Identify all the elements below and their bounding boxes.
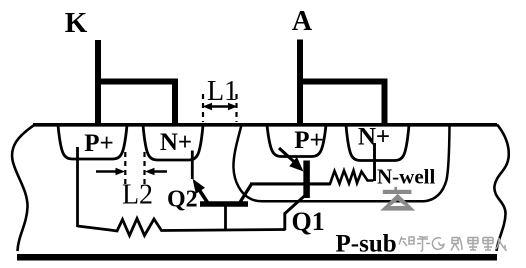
N+ anode well bbox=[346, 125, 409, 161]
P+ cathode well bbox=[58, 125, 127, 159]
left wavy break edge bbox=[12, 125, 35, 252]
transistor Q1 base bar bbox=[303, 161, 310, 199]
base wire Q2 collector to Q1 base bbox=[250, 182, 330, 185]
svg-text:N-well: N-well bbox=[377, 165, 435, 189]
right wavy break edge bbox=[494, 125, 508, 252]
N-well label bbox=[377, 165, 435, 189]
anode contact metal (A wire) bbox=[297, 40, 385, 126]
watermark diode logo gray bbox=[380, 187, 415, 211]
P+ anode well bbox=[267, 125, 326, 157]
transistor Q2 base lead bbox=[224, 206, 227, 230]
transistor Q2 emitter with arrow bbox=[193, 179, 208, 203]
Q2 label bbox=[167, 187, 198, 213]
L1 dimension arrow bbox=[203, 103, 238, 110]
N+ cathode label bbox=[160, 129, 192, 156]
watermark text zhihu bbox=[399, 237, 507, 252]
P+ cathode label bbox=[84, 130, 114, 157]
silicon surface line bbox=[33, 123, 497, 127]
L1 label bbox=[207, 76, 238, 107]
svg-text:A: A bbox=[292, 6, 313, 37]
L2 dashed extension line right bbox=[143, 152, 145, 184]
svg-text:N+: N+ bbox=[160, 129, 192, 156]
N-well boundary bbox=[233, 125, 449, 201]
N+ cathode well bbox=[143, 125, 203, 160]
svg-text:P-sub: P-sub bbox=[336, 231, 397, 258]
L2 left arrow bbox=[96, 168, 125, 175]
wire from P+ cathode down bbox=[76, 147, 79, 227]
substrate resistor Rsub with bottom wire bbox=[78, 219, 286, 236]
cathode contact metal (K wire) bbox=[95, 40, 175, 125]
P-sub label bbox=[336, 231, 397, 258]
svg-text:P+: P+ bbox=[84, 130, 114, 157]
substrate bottom line bbox=[17, 254, 497, 261]
transistor Q2 base bar bbox=[200, 201, 248, 207]
N+ anode label bbox=[358, 124, 390, 151]
P+ anode label bbox=[294, 127, 324, 154]
N-well resistor Rnwell bbox=[310, 171, 374, 184]
L1 dashed extension line right bbox=[235, 94, 237, 122]
terminal label A bbox=[292, 6, 313, 37]
svg-text:K: K bbox=[65, 7, 88, 39]
svg-text:Q1: Q1 bbox=[292, 207, 325, 236]
transistor Q1 emitter with arrow bbox=[279, 148, 304, 172]
wire from N+ cathode down to Q2 emitter bbox=[191, 151, 194, 180]
L1 dashed extension line left bbox=[202, 94, 204, 122]
L2 label bbox=[122, 180, 153, 211]
svg-text:Q2: Q2 bbox=[167, 187, 198, 213]
transistor Q2 collector bbox=[240, 184, 252, 203]
svg-text:L1: L1 bbox=[207, 76, 238, 107]
terminal label K bbox=[65, 7, 88, 39]
L2 dashed extension line left bbox=[124, 152, 126, 184]
wire from N+ anode down to Rnwell bbox=[373, 143, 376, 181]
transistor Q1 collector bbox=[285, 195, 306, 230]
svg-text:L2: L2 bbox=[122, 180, 153, 211]
Q1 label bbox=[292, 207, 325, 236]
L2 right arrow bbox=[145, 168, 167, 175]
svg-text:P+: P+ bbox=[294, 127, 324, 154]
